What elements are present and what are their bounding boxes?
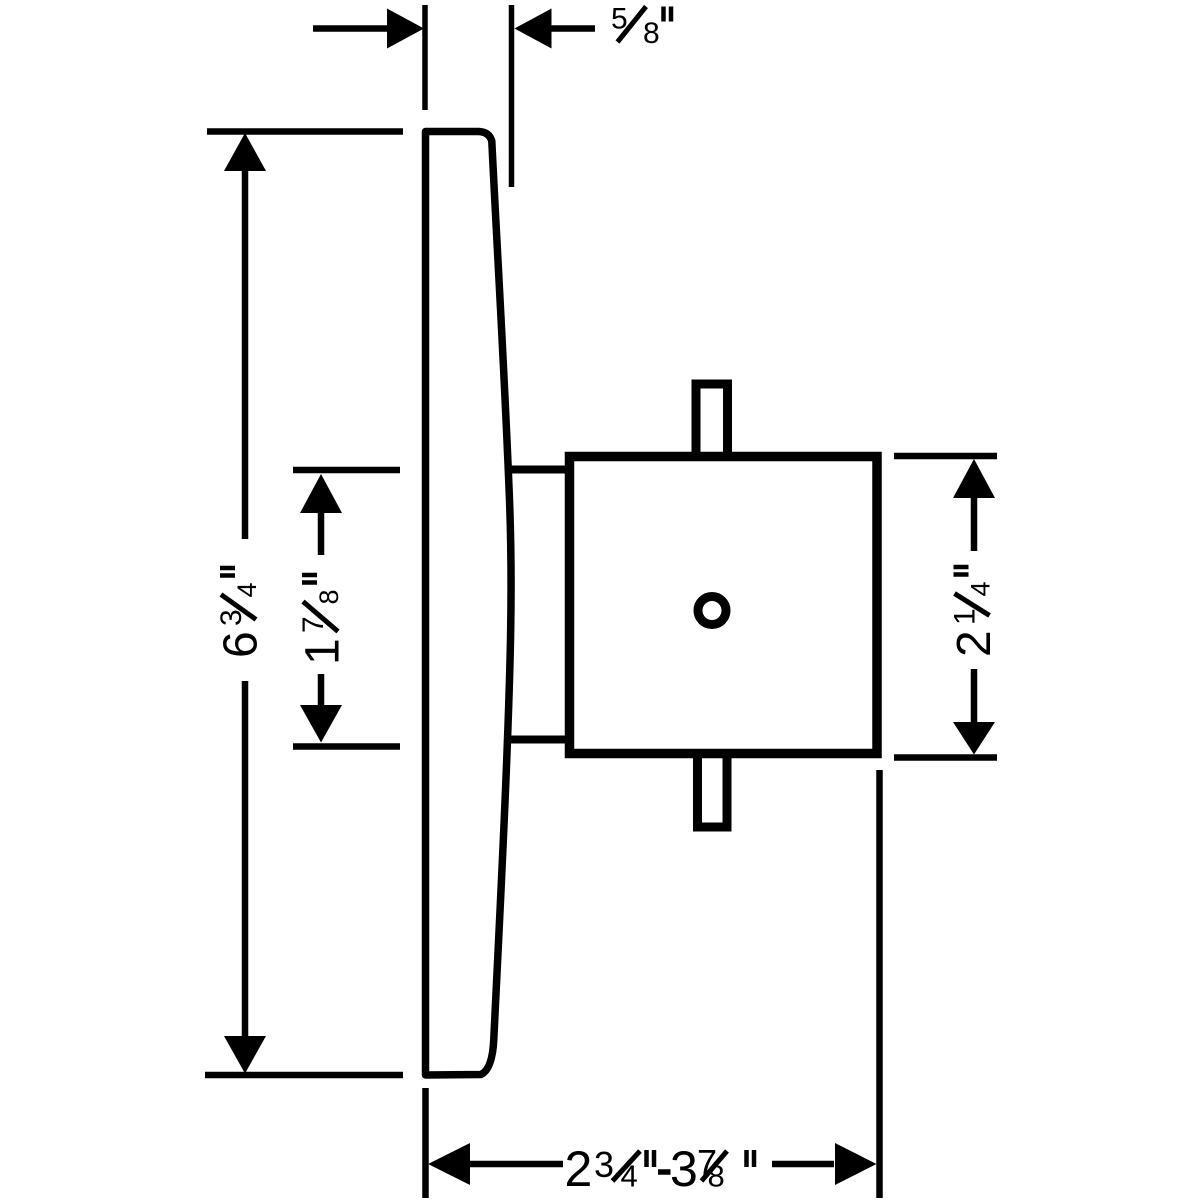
- dim 6 3/4: top arrow: [224, 133, 266, 171]
- svg-text:4: 4: [966, 581, 996, 596]
- handle body (square): [570, 457, 878, 754]
- dim 2 1/4: up arrow: [953, 459, 995, 498]
- dim 5/8: right arrow: [515, 9, 552, 49]
- dim 1 7/8: label "1 7/8&quot;" rotated: [297, 575, 350, 665]
- svg-text:8: 8: [643, 17, 660, 50]
- dim 6 3/4: lower dimension line: [242, 681, 249, 1038]
- dim 2 3/4 - 3 7/8: label "2 3/4&quot;-3 7/8&quot;": [565, 1141, 755, 1197]
- dim 6 3/4: bottom extension line: [205, 1072, 403, 1079]
- adapter collar bottom edge: [506, 736, 572, 744]
- svg-text:8: 8: [314, 589, 344, 604]
- dim 1 7/8: bottom extension line: [293, 743, 400, 750]
- dim 5/8: left arrow: [387, 9, 424, 49]
- handle top tab: [696, 384, 728, 454]
- adapter collar top edge: [506, 466, 572, 474]
- dim 5/8: label "5/8&quot;": [611, 3, 671, 51]
- dim 5/8: right leader line: [550, 25, 595, 32]
- dim 6 3/4: label "6 3/4&quot;" rotated: [215, 568, 268, 658]
- svg-text:2: 2: [948, 630, 1001, 657]
- dim 1 7/8: upper dimension line: [318, 512, 325, 555]
- handle bottom tab: [698, 756, 728, 827]
- dim 2 1/4: label "2 1/4&quot;" rotated: [948, 567, 1001, 657]
- dim 6 3/4: upper dimension line: [242, 170, 249, 539]
- dim 2 1/4: lower dimension line: [971, 669, 978, 723]
- svg-text:2: 2: [565, 1141, 593, 1197]
- dim 1 7/8: top extension line: [293, 467, 400, 474]
- dim 5/8: extension line at plate left: [422, 5, 428, 110]
- dim 2 3/4 - 3 7/8: right arrow: [835, 1143, 877, 1185]
- svg-text:3: 3: [594, 1144, 614, 1185]
- dim 2 3/4 - 3 7/8: left arrow: [428, 1143, 470, 1185]
- svg-text:3: 3: [670, 1141, 698, 1197]
- dim 1 7/8: down arrow: [300, 705, 342, 743]
- svg-text:1: 1: [297, 638, 350, 665]
- handle screw hole: [698, 597, 726, 625]
- dim 2 3/4 - 3 7/8: left dimension line: [469, 1161, 563, 1168]
- dim 2 1/4: top extension line: [894, 453, 997, 460]
- dim 2 1/4: down arrow: [953, 722, 995, 755]
- dim 5/8: extension line at plate face: [509, 5, 515, 187]
- svg-text:6: 6: [215, 631, 268, 658]
- dim 1 7/8: lower dimension line: [318, 674, 325, 707]
- dim 2 3/4 - 3 7/8: left extension line: [422, 1088, 429, 1198]
- escutcheon plate (side view): [426, 132, 512, 1076]
- dim 2 1/4: bottom extension line: [894, 754, 997, 761]
- dim 2 3/4 - 3 7/8: right extension line: [876, 770, 883, 1198]
- svg-text:4: 4: [232, 582, 262, 597]
- dim 6 3/4: top extension line: [207, 128, 403, 135]
- svg-text:4: 4: [621, 1159, 638, 1194]
- svg-text:1: 1: [949, 608, 982, 625]
- dim 1 7/8: up arrow: [300, 474, 342, 513]
- dim 6 3/4: bottom arrow: [224, 1036, 266, 1074]
- svg-text:8: 8: [708, 1159, 725, 1194]
- dim 2 1/4: upper dimension line: [971, 497, 978, 551]
- dim 2 3/4 - 3 7/8: right dimension line: [772, 1161, 834, 1168]
- dim 5/8: left leader line: [313, 25, 390, 32]
